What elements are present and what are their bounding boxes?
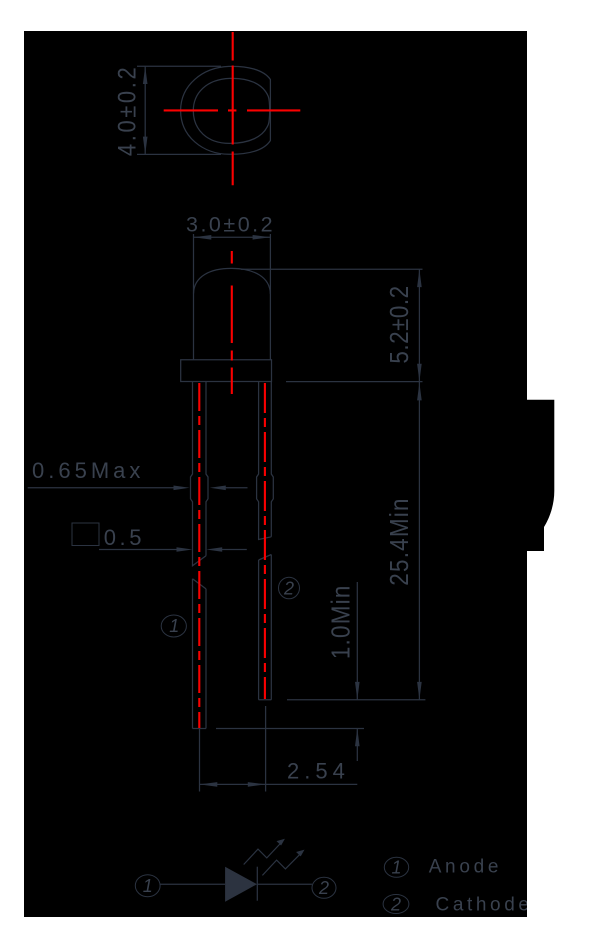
svg-text:4.0±0.2: 4.0±0.2 (114, 65, 142, 156)
dimension line 25.4Min (418, 382, 420, 700)
body centerline, side view (231, 251, 233, 394)
svg-text:25.4Min: 25.4Min (386, 497, 415, 585)
extension line from flange bottom (286, 381, 423, 383)
cathode lead (pin 2) lower segment (259, 555, 272, 700)
dimension line 3.0±0.2 (194, 236, 271, 238)
dimension line 0.65Max (28, 487, 248, 489)
light emission arrow 1 (244, 843, 282, 865)
dimension line 5.2±0.2 (418, 269, 420, 381)
LED flange (181, 360, 272, 382)
extension lines for 2.54 dimension (200, 706, 266, 792)
LED symbol D1 triangle (225, 867, 257, 902)
dimension line 4.0±0.2 (144, 66, 146, 154)
svg-text:5.2±0.2: 5.2±0.2 (386, 285, 415, 363)
horizontal centerline, top view (164, 109, 301, 111)
svg-text:1: 1 (391, 858, 401, 878)
vertical centerline, top view (232, 32, 234, 185)
svg-text:Anode: Anode (429, 857, 502, 878)
legend pin 1 balloon (384, 857, 408, 877)
svg-text:Cathode: Cathode (436, 894, 533, 915)
anode lead (pin 1) upper segment with crimp (191, 382, 209, 566)
dimension line 1.0Min (356, 582, 358, 761)
arrowheads 4.0±0.2 (143, 66, 148, 154)
svg-text:2: 2 (318, 878, 329, 898)
arrowheads 0.5 (177, 547, 223, 552)
LED symbol cathode bar (256, 867, 258, 901)
extension line from dome top (241, 268, 423, 270)
extension lines for 4.0±0.2 dimension (137, 66, 221, 154)
arrowheads 5.2±0.2 (417, 269, 422, 381)
arrowheads 2.54 (200, 782, 266, 787)
svg-text:1: 1 (169, 616, 179, 636)
LED body sides / extension lines (194, 234, 271, 360)
arrowheads 25.4Min (417, 383, 422, 700)
pin 2 balloon at LED symbol (312, 877, 336, 898)
light emission arrow 2 (262, 853, 301, 875)
arrowheads 3.0±0.2 (194, 235, 271, 240)
dimension line 0.5 (99, 549, 247, 551)
legend pin 2 balloon (383, 895, 409, 914)
square-section symbol for 0.5 (72, 523, 99, 546)
svg-text:2.54: 2.54 (287, 759, 350, 784)
svg-text:0.5: 0.5 (104, 525, 145, 550)
cathode lead (pin 2) upper segment with crimp (257, 382, 274, 540)
dimension line 2.54 (200, 783, 358, 785)
svg-text:2: 2 (283, 579, 294, 599)
svg-text:2: 2 (390, 895, 401, 915)
pin 2 balloon on cathode lead (279, 577, 300, 599)
arrowheads 0.65Max (174, 486, 226, 491)
pin 1 balloon at LED symbol (135, 875, 160, 897)
pin 1 balloon on anode lead (161, 615, 186, 637)
svg-text:1.0Min: 1.0Min (327, 584, 356, 659)
anode lead (pin 1) lower segment (193, 579, 207, 729)
svg-text:3.0±0.2: 3.0±0.2 (186, 213, 275, 237)
wire LED symbol to cathode (257, 883, 312, 885)
arrowheads 1.0Min (355, 682, 360, 746)
wire anode to LED symbol (160, 883, 225, 885)
extension line from anode lead end (216, 728, 364, 730)
svg-text:0.65Max: 0.65Max (32, 458, 144, 483)
extension line from cathode lead end (287, 699, 425, 701)
LED top view: outer flange circle with flat (181, 66, 271, 154)
LED dome (194, 268, 271, 294)
LED top view: inner epoxy body circle (193, 78, 269, 143)
cathode lead centerline (264, 383, 266, 699)
svg-text:1: 1 (143, 876, 153, 896)
anode lead centerline (198, 383, 200, 728)
